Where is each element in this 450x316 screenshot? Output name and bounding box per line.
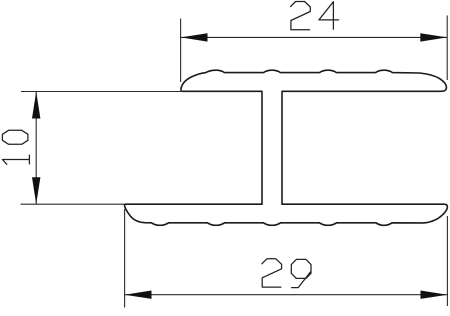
dim 24: text digit 2 — [291, 2, 311, 30]
dim 29: left extension line — [124, 209, 126, 308]
dim 10: bottom extension line — [21, 203, 124, 205]
dim 29: dimension line — [125, 294, 448, 296]
dim 24: left extension line — [180, 19, 182, 83]
dim 29: left arrowhead — [125, 291, 152, 299]
digit 1 — [2, 155, 29, 164]
dim 29: text digit 2 — [262, 259, 282, 287]
dim 29: right arrowhead — [421, 291, 448, 299]
dim 24: text digit 4 — [319, 2, 339, 30]
dim 24: right arrowhead — [420, 33, 447, 41]
dim 24: right extension line — [446, 16, 448, 81]
dim 24: left arrowhead — [181, 33, 208, 41]
dim 29: text digit 9 — [291, 259, 311, 287]
dim 10: rotated text "10" — [2, 130, 29, 164]
dim 10: bottom arrowhead — [32, 177, 40, 204]
dim 10: top extension line — [21, 91, 181, 93]
H-profile outline — [124, 70, 447, 225]
dim 10: dimension line — [35, 92, 37, 205]
dim 29: right extension line — [446, 216, 448, 306]
digit 0 — [2, 130, 28, 144]
dim 10: top arrowhead — [32, 92, 40, 119]
dim 24: dimension line — [181, 36, 448, 38]
